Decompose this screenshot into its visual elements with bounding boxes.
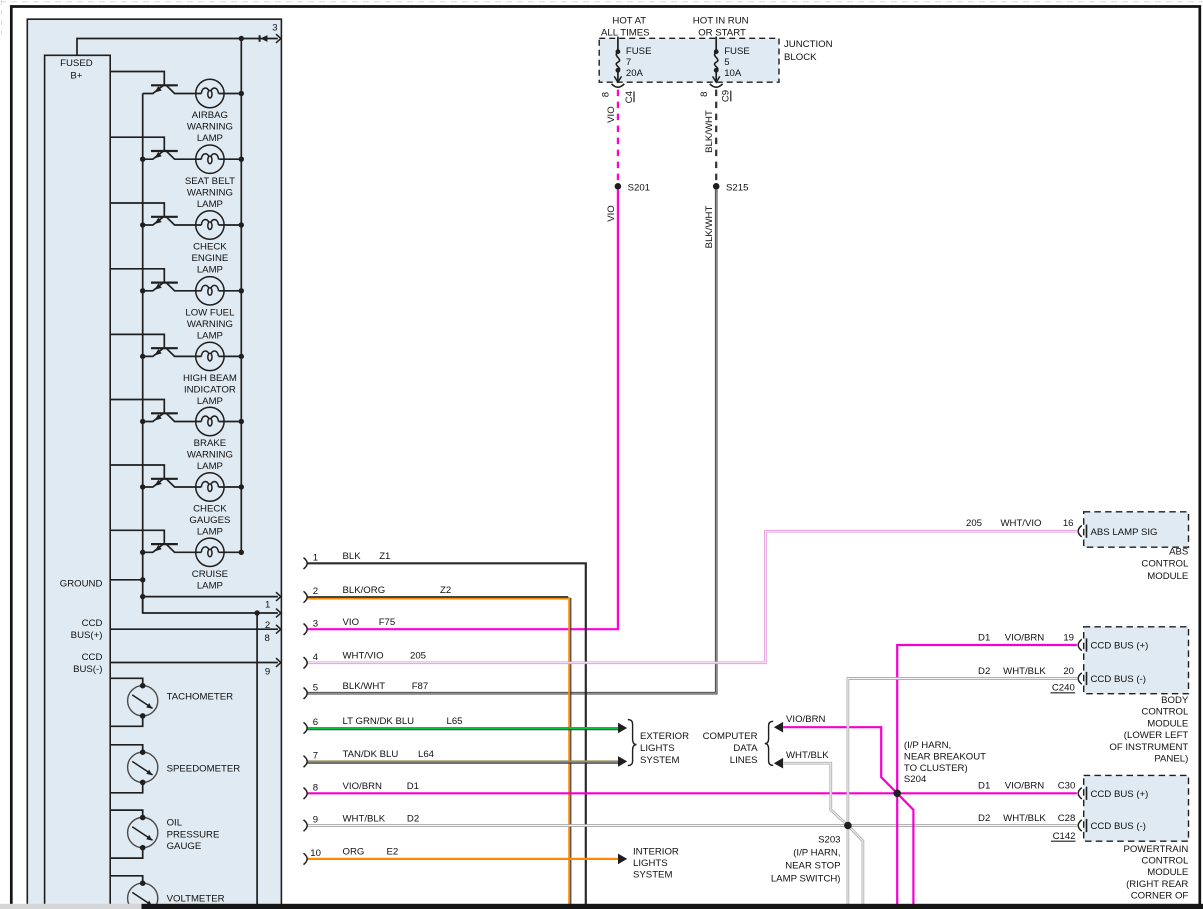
junction dot emitter rail row 7 [140,484,145,489]
svg-text:WARNING: WARNING [187,187,233,198]
svg-text:Z2: Z2 [440,585,451,596]
svg-text:LIGHTS: LIGHTS [633,858,668,869]
svg-text:D1: D1 [978,632,990,643]
svg-text:7: 7 [313,751,318,762]
lamp L8 CRUISE LAMP [196,538,224,566]
svg-text:6: 6 [313,717,318,728]
wire lamp L5 to supply rail [219,355,242,357]
svg-text:CONTROL: CONTROL [1141,559,1189,570]
junction dot supply rail row 7 [239,484,244,489]
svg-text:(RIGHT REAR: (RIGHT REAR [1126,879,1188,890]
svg-text:VIO/BRN: VIO/BRN [1005,632,1045,643]
junction dot ground feed [140,577,145,582]
arrow to exterior lights (L65) [618,723,627,734]
svg-text:CCD BUS (+): CCD BUS (+) [1091,789,1149,800]
svg-text:OR START: OR START [698,28,746,39]
wire BLK/ORG Z2 (pin 2, ground) [308,596,569,598]
wire WHT/BLK computer data branch to S203 [783,763,848,825]
bottom scrollbar band [0,904,142,909]
svg-text:HOT AT: HOT AT [612,15,646,26]
svg-text:D2: D2 [978,666,990,677]
svg-text:(LOWER LEFT: (LOWER LEFT [1124,730,1189,741]
svg-text:SEAT BELT: SEAT BELT [185,176,235,187]
junction dot supply rail row 8 [239,550,244,555]
junction dot ground rail split [140,594,145,599]
svg-text:8: 8 [313,783,318,794]
junction dot supply rail row 1 [239,91,244,96]
svg-text:OIL: OIL [167,818,183,829]
svg-text:CRUISE: CRUISE [192,569,228,580]
svg-text:19: 19 [1063,632,1074,643]
svg-text:S203: S203 [818,835,840,846]
svg-text:FUSED: FUSED [60,58,93,69]
lamp L2 SEAT BELT WARNING LAMP [196,145,224,173]
lamp L7 CHECK GAUGES LAMP [196,473,224,501]
wire LT GRN/DK BLU L65 (pin 6) [308,727,620,729]
svg-text:BUS(-): BUS(-) [73,664,102,675]
svg-text:AIRBAG: AIRBAG [192,110,228,121]
svg-text:BLOCK: BLOCK [784,52,817,63]
svg-text:C30: C30 [1058,781,1076,792]
junction dot supply rail row 5 [239,354,244,359]
cluster pin 9 connector [304,820,308,831]
svg-text:VIO: VIO [606,205,617,222]
svg-text:S215: S215 [726,182,748,193]
gauge OIL PRESSURE GAUGE [128,815,158,851]
transistor Q5 base feed wire [110,334,164,348]
svg-text:D2: D2 [978,813,990,824]
transistor Q4 base feed wire [110,269,164,283]
svg-text:Z1: Z1 [379,551,390,562]
svg-text:20: 20 [1063,666,1074,677]
svg-text:D1: D1 [407,781,419,792]
wire VIO/BRN S204 to BCM CCD BUS(+) [897,645,1077,793]
svg-text:LOW FUEL: LOW FUEL [185,308,235,319]
svg-text:16: 16 [1063,518,1074,529]
wire lamp L8 to supply rail [219,551,242,553]
lamp L6 BRAKE WARNING LAMP [196,407,224,435]
svg-text:ENGINE: ENGINE [192,253,229,264]
wire CCD BUS(-) exit pin 9 [110,662,278,664]
wire VIO/BRN below S204 (straight) [896,793,898,904]
wire ground branch down [256,613,258,904]
junction dot emitter rail row 6 [140,419,145,424]
svg-text:C240: C240 [1052,682,1075,693]
svg-text:MODULE: MODULE [1147,867,1188,878]
svg-text:JUNCTION: JUNCTION [784,39,833,50]
body control module box [1084,627,1189,694]
svg-text:8: 8 [601,92,612,97]
svg-text:INDICATOR: INDICATOR [184,385,236,396]
wire fused B+ to off-page (circuit 3) [77,39,278,56]
powertrain control module box [1084,775,1189,841]
svg-text:MODULE: MODULE [1147,571,1188,582]
svg-text:ABS LAMP SIG: ABS LAMP SIG [1091,527,1158,538]
splice S204 [893,790,901,798]
svg-text:C9: C9 [721,90,732,102]
svg-text:WHT/BLK: WHT/BLK [1003,666,1046,677]
fuse 5 (10A) [710,37,750,88]
svg-text:20A: 20A [626,68,644,79]
svg-text:8: 8 [699,92,710,97]
svg-text:8: 8 [264,633,269,644]
svg-text:5: 5 [313,682,318,693]
svg-text:WARNING: WARNING [187,450,233,461]
wire TAN/DK BLU L64 (pin 7) [308,760,620,762]
svg-text:HIGH BEAM: HIGH BEAM [183,373,237,384]
page edge dashed line top [0,1,1203,3]
svg-text:L64: L64 [418,749,435,760]
svg-text:CCD: CCD [82,652,103,663]
cluster pin 5 connector [304,688,308,699]
wire WHT/BLK below S203 (straight) [847,826,850,905]
svg-text:BLK: BLK [343,551,362,562]
wire lamp L3 to supply rail [219,224,242,226]
wire BLK Z1 (pin 1, ground) [308,563,586,904]
arrow to interior lights (E2) [618,854,627,865]
splice S203 [844,822,852,830]
transistor Q1 base feed wire [110,72,164,86]
arrow from computer data lines WHT/BLK [774,758,783,769]
junction dot ground branch [254,610,259,615]
svg-text:5: 5 [724,57,729,68]
wire WHT/BLK D2 (pin 9, CCD bus -) [308,824,1077,827]
wire lamp L4 to supply rail [219,290,242,292]
svg-text:WARNING: WARNING [187,122,233,133]
svg-text:D2: D2 [407,813,419,824]
svg-text:3: 3 [272,23,277,34]
svg-text:TAN/DK BLU: TAN/DK BLU [343,749,399,760]
transistor Q4 (LOW FUEL lamp driver) [143,283,202,291]
svg-text:205: 205 [966,518,982,529]
svg-text:FUSE: FUSE [724,46,750,57]
svg-text:INTERIOR: INTERIOR [633,846,679,857]
emitter ground rail (left) [142,94,144,614]
svg-text:S204: S204 [904,774,927,785]
junction dot emitter rail row 3 [140,222,145,227]
cluster pin 6 connector [304,722,308,733]
fuse 7 (20A) [612,37,652,88]
svg-text:VIO: VIO [343,617,360,628]
BCM pin 19 connector [1078,639,1082,650]
svg-text:LAMP: LAMP [197,527,223,538]
wire ORG E2 (pin 10) [308,858,620,860]
svg-text:(I/P HARN,: (I/P HARN, [904,740,951,751]
svg-text:FUSE: FUSE [626,46,652,57]
instrument cluster box (blue) [27,19,281,909]
svg-text:205: 205 [410,651,426,662]
wire BLK/WHT dashed fuse5 to S215 [715,90,717,183]
gauge OIL PRESSURE GAUGE feed wires [110,810,143,817]
gauge VOLTMETER [128,880,158,909]
lamp L3 CHECK ENGINE LAMP [196,211,224,239]
cluster pin 1 connector [304,558,308,569]
wire lamp L7 to supply rail [219,486,242,488]
junction dot supply rail row 3 [239,222,244,227]
svg-text:SYSTEM: SYSTEM [633,869,672,880]
svg-text:WHT/BLK: WHT/BLK [786,750,829,761]
svg-text:WHT/BLK: WHT/BLK [343,813,386,824]
svg-text:NEAR BREAKOUT: NEAR BREAKOUT [904,752,986,763]
svg-text:DATA: DATA [733,743,758,754]
svg-text:LT GRN/DK BLU: LT GRN/DK BLU [343,716,415,727]
wire ground label to rail [110,579,143,581]
svg-text:LAMP: LAMP [197,396,223,407]
svg-text:CCD BUS (+): CCD BUS (+) [1091,641,1149,652]
svg-text:POWERTRAIN: POWERTRAIN [1123,844,1188,855]
wire ground exit pin 1 [143,596,278,598]
wire lamp L6 to supply rail [219,421,242,423]
svg-text:SPEEDOMETER: SPEEDOMETER [167,763,241,774]
transistor Q6 (BRAKE lamp driver) [143,413,202,421]
svg-text:TO CLUSTER): TO CLUSTER) [904,763,968,774]
lamp L1 AIRBAG WARNING LAMP [196,79,224,107]
svg-text:MODULE: MODULE [1147,718,1188,729]
svg-text:L65: L65 [447,716,463,727]
junction dot supply rail row 4 [239,288,244,293]
BCM pin 20 connector [1078,673,1082,684]
svg-text:BLK/ORG: BLK/ORG [343,585,386,596]
transistor Q5 (HIGH BEAM lamp driver) [143,348,202,356]
svg-text:PRESSURE: PRESSURE [167,829,220,840]
svg-text:BLK/WHT: BLK/WHT [704,206,715,249]
svg-text:WARNING: WARNING [187,319,233,330]
splice S215 [713,183,720,190]
svg-text:C142: C142 [1053,831,1076,842]
svg-text:B+: B+ [70,70,82,81]
transistor Q3 (CHECK lamp driver) [143,217,202,225]
svg-text:ORG: ORG [343,847,365,858]
svg-text:BLK/WHT: BLK/WHT [704,110,715,153]
svg-text:VIO: VIO [606,106,617,123]
lamp L5 HIGH BEAM INDICATOR LAMP [196,342,224,370]
svg-text:VIO/BRN: VIO/BRN [1005,781,1045,792]
PCM pin C28 connector [1078,820,1082,831]
PCM pin C30 connector [1078,788,1082,799]
svg-text:E2: E2 [387,847,399,858]
svg-text:VOLTMETER: VOLTMETER [167,893,225,904]
svg-text:CHECK: CHECK [193,504,227,515]
transistor Q8 base feed wire [110,530,164,544]
transistor Q2 (SEAT BELT lamp driver) [143,151,202,159]
wire ground exit pin 2 [143,597,278,613]
svg-text:PANEL): PANEL) [1154,754,1188,765]
svg-text:LAMP: LAMP [197,581,223,592]
svg-text:GAUGE: GAUGE [167,841,202,852]
arrow from computer data lines VIO/BRN [774,722,783,733]
svg-text:9: 9 [265,666,270,677]
page edge dashed line left [1,0,3,36]
junction block box [599,38,779,82]
lamp L4 LOW FUEL WARNING LAMP [196,277,224,305]
svg-text:F87: F87 [412,681,429,692]
junction dot top rail [239,36,244,41]
svg-text:1: 1 [265,600,270,611]
svg-text:VIO/BRN: VIO/BRN [343,781,383,792]
svg-text:9: 9 [313,815,318,826]
wire WHT/BLK below S203 (branch) [848,826,863,905]
svg-text:BRAKE: BRAKE [194,438,227,449]
svg-text:CCD BUS (-): CCD BUS (-) [1091,821,1146,832]
svg-text:VIO/BRN: VIO/BRN [786,714,826,725]
svg-text:LAMP: LAMP [197,461,223,472]
ABS control module box [1084,512,1189,547]
junction dot emitter rail row 4 [140,288,145,293]
exit arrow circuit 3 [276,34,281,43]
junction dot supply rail row 6 [239,419,244,424]
svg-text:GAUGES: GAUGES [189,515,230,526]
svg-text:7: 7 [626,57,631,68]
cluster internal connector box (FUSED B+/GROUND/CCD bar) [45,55,111,909]
svg-text:CORNER OF: CORNER OF [1131,891,1189,902]
junction dot emitter rail row 8 [140,550,145,555]
svg-text:BODY: BODY [1161,695,1189,706]
svg-text:WHT/BLK: WHT/BLK [1003,813,1046,824]
svg-text:10A: 10A [724,68,742,79]
svg-text:BUS(+): BUS(+) [71,630,103,641]
svg-text:TACHOMETER: TACHOMETER [167,692,234,703]
svg-text:COMPUTER: COMPUTER [703,731,758,742]
svg-text:WHT/VIO: WHT/VIO [1000,518,1041,529]
svg-text:WHT/VIO: WHT/VIO [343,651,384,662]
wire VIO dashed fuse7 to S201 [617,90,619,183]
wire CCD BUS(+) exit pin 8 [110,628,278,630]
brace exterior lights system [628,720,637,766]
svg-text:D1: D1 [978,781,990,792]
svg-text:3: 3 [313,618,318,629]
gauge TACHOMETER [128,683,158,719]
off-page marker on circuit 3 [259,35,261,42]
svg-text:LAMP: LAMP [197,331,223,342]
gauge TACHOMETER feed wires [110,678,143,685]
transistor Q6 base feed wire [110,400,164,414]
wire WHT/BLK S203 to BCM CCD BUS(-) [848,679,1077,826]
transistor Q2 base feed wire [110,137,164,151]
svg-text:CHECK: CHECK [193,242,227,253]
wire BLK/WHT F87 (pin 5 to S215) [308,190,717,694]
gauge SPEEDOMETER feed wires [110,745,143,752]
brace computer data lines [765,721,774,765]
wire VIO F75 (pin 3 to S201) [308,190,618,630]
wire VIO/BRN below S204 (branch) [897,793,913,904]
wire lamp L1 to supply rail [219,93,242,95]
svg-text:F75: F75 [379,617,396,628]
svg-text:S201: S201 [628,182,650,193]
svg-text:LAMP: LAMP [197,199,223,210]
svg-text:SYSTEM: SYSTEM [640,755,679,766]
svg-text:LAMP: LAMP [197,265,223,276]
transistor Q3 base feed wire [110,203,164,217]
gauge VOLTMETER feed wires [110,876,143,883]
arrow to exterior lights (L64) [618,756,627,767]
wire VIO/BRN D1 (pin 8, CCD bus +) [308,792,1077,794]
transistor Q1 (AIRBAG lamp driver) [143,85,202,93]
svg-text:EXTERIOR: EXTERIOR [640,731,689,742]
svg-text:CONTROL: CONTROL [1141,707,1189,718]
lamp supply rail (right, from circuit 3) [240,39,242,553]
svg-text:(I/P HARN,: (I/P HARN, [793,848,840,859]
wire lamp L2 to supply rail [219,158,242,160]
junction dot supply rail row 2 [239,157,244,162]
svg-text:2: 2 [313,586,318,597]
svg-text:CCD BUS (-): CCD BUS (-) [1091,674,1146,685]
svg-text:CONTROL: CONTROL [1141,856,1189,867]
svg-text:HOT IN RUN: HOT IN RUN [693,15,749,26]
gauge SPEEDOMETER [128,749,158,785]
junction dot emitter rail row 5 [140,354,145,359]
cluster pin 10 connector [304,853,308,864]
svg-text:LIGHTS: LIGHTS [640,743,675,754]
transistor Q7 base feed wire [110,465,164,479]
svg-text:GROUND: GROUND [60,578,103,589]
cluster pin 7 connector [304,756,308,767]
cluster pin 4 connector [304,657,308,668]
transistor Q7 (CHECK lamp driver) [143,479,202,487]
svg-text:CCD: CCD [82,618,103,629]
svg-text:LAMP SWITCH): LAMP SWITCH) [771,874,841,885]
svg-text:ABS: ABS [1169,547,1188,558]
cluster pin 8 connector [304,788,308,799]
svg-text:10: 10 [310,848,321,859]
svg-text:4: 4 [313,652,319,663]
svg-text:ALL TIMES: ALL TIMES [601,28,650,39]
wire VIO/BRN computer data branch to S204 [783,727,897,793]
junction dot emitter rail row 2 [140,157,145,162]
ABS module pin 16 connector [1078,526,1082,537]
cluster pin 2 connector [304,591,308,602]
svg-text:1: 1 [313,553,318,564]
svg-text:OF INSTRUMENT: OF INSTRUMENT [1109,742,1188,753]
wire WHT/VIO 205 (pin 4 to ABS) [308,531,1077,663]
svg-text:NEAR STOP: NEAR STOP [785,861,840,872]
splice S201 [615,183,622,190]
svg-text:C28: C28 [1058,813,1076,824]
transistor Q8 (CRUISE lamp driver) [143,544,202,552]
cluster pin 3 connector [304,624,308,635]
svg-text:C4: C4 [624,90,635,103]
svg-text:LAMP: LAMP [197,133,223,144]
svg-text:BLK/WHT: BLK/WHT [343,681,386,692]
svg-text:LINES: LINES [730,755,758,766]
